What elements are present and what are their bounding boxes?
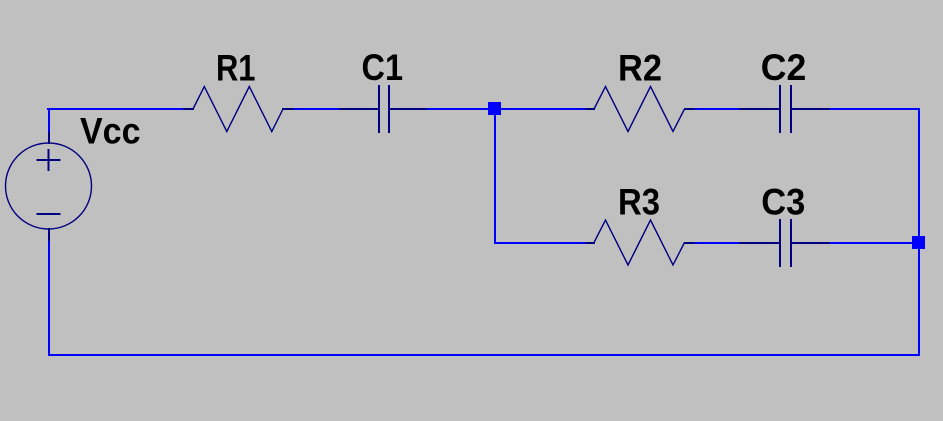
node A junction square <box>488 102 501 115</box>
svg-text:C2: C2 <box>761 47 807 88</box>
wire top-left horizontal from Vcc corner to R1 <box>47 108 184 110</box>
svg-text:C1: C1 <box>362 47 404 88</box>
capacitor C3 <box>739 219 830 267</box>
node B output junction square <box>912 236 925 249</box>
wire top between node A and R2 <box>499 108 586 110</box>
wire left vertical from corner down to Vcc top stub <box>48 108 50 133</box>
svg-text:C3: C3 <box>761 181 805 222</box>
resistor R2 <box>585 87 695 132</box>
wire lower branch between C3 and node B <box>829 242 913 244</box>
resistor R3 <box>585 220 695 265</box>
wire top between R2 and C2 <box>694 108 740 110</box>
voltage source Vcc <box>6 132 92 241</box>
svg-text:R3: R3 <box>618 181 660 222</box>
wire lower branch from drop corner to R3 <box>494 242 586 244</box>
wire top between R1 and C1 <box>293 108 340 110</box>
wire node A vertical drop <box>494 108 496 243</box>
svg-text:R2: R2 <box>618 48 662 89</box>
wire top between C2 and right rail <box>829 108 920 110</box>
wire lower branch between R3 and C3 <box>694 242 740 244</box>
resistor R1 <box>183 87 294 132</box>
wire top between C1 and node A <box>426 108 490 110</box>
capacitor C2 <box>739 85 830 133</box>
wire left vertical from Vcc bottom stub down to bottom rail <box>48 240 50 356</box>
svg-text:Vcc: Vcc <box>80 111 141 152</box>
wire right vertical rail <box>918 108 920 356</box>
wire bottom rail <box>48 354 920 356</box>
svg-text:R1: R1 <box>216 48 256 89</box>
capacitor C1 <box>339 85 427 133</box>
